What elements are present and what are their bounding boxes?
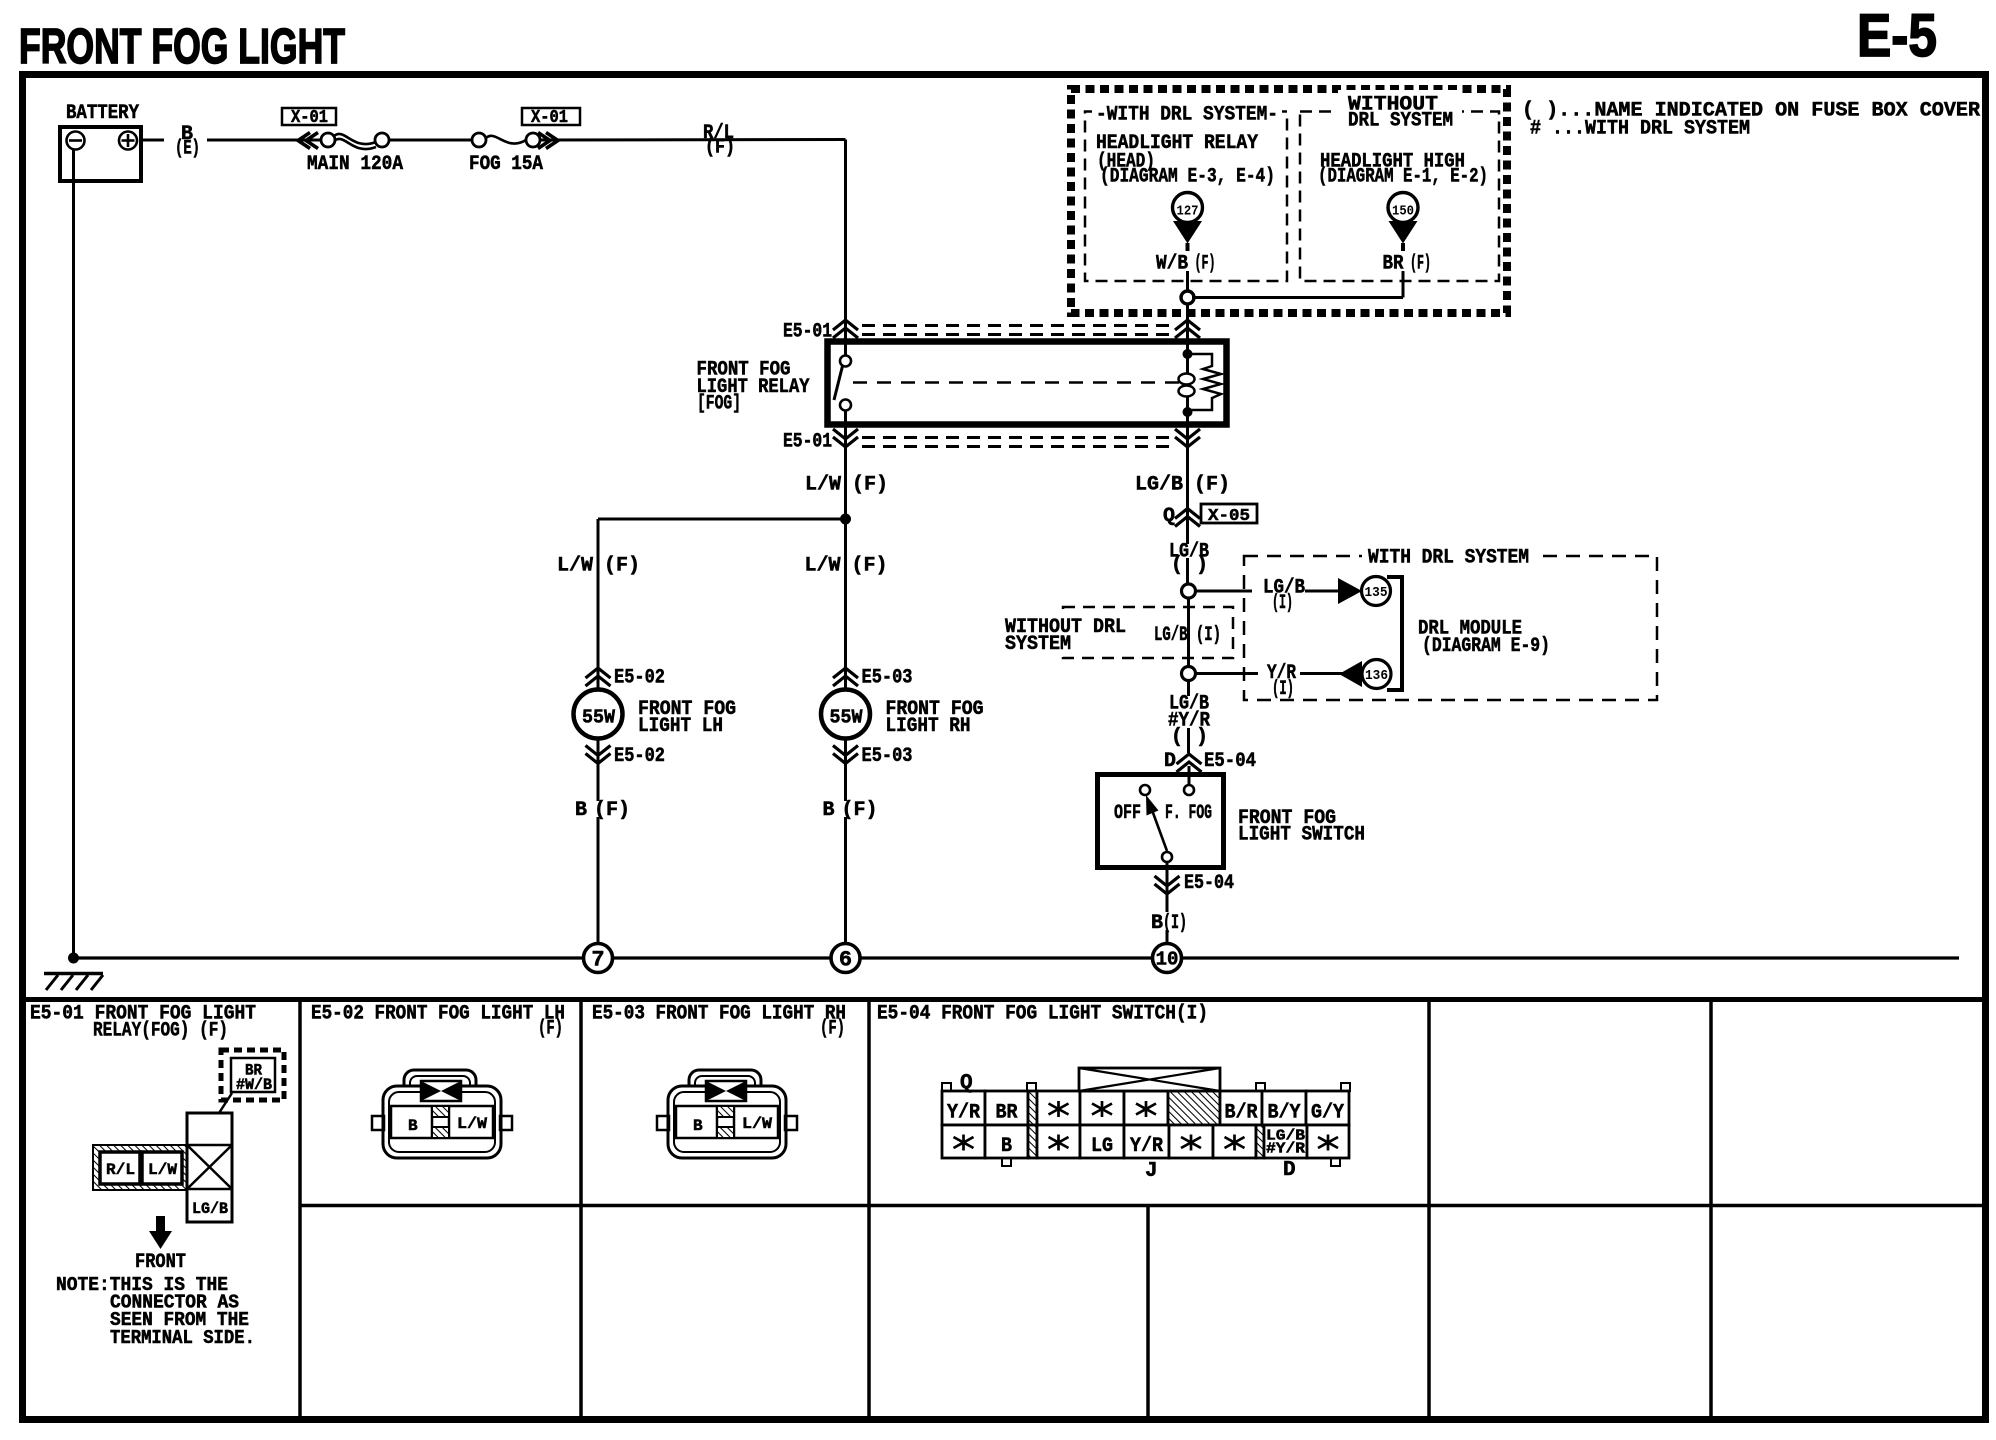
svg-text:B/Y: B/Y xyxy=(1268,1102,1301,1125)
svg-text:J: J xyxy=(1145,1160,1158,1183)
svg-text:#W/B: #W/B xyxy=(236,1076,272,1094)
svg-text:B/R: B/R xyxy=(1225,1102,1258,1125)
svg-text:LIGHT SWITCH: LIGHT SWITCH xyxy=(1238,824,1365,847)
svg-text:E5-03: E5-03 xyxy=(862,667,913,690)
svg-text:SYSTEM: SYSTEM xyxy=(1005,633,1071,656)
svg-text:Y/R: Y/R xyxy=(1130,1135,1163,1158)
svg-text:E5-02: E5-02 xyxy=(614,667,665,690)
svg-text:WITH DRL SYSTEM: WITH DRL SYSTEM xyxy=(1368,547,1529,570)
svg-text:127: 127 xyxy=(1177,204,1199,220)
svg-text:LG: LG xyxy=(1091,1135,1113,1158)
svg-text:D: D xyxy=(1283,1159,1296,1182)
svg-text:W/B: W/B xyxy=(1156,253,1188,276)
svg-text:7: 7 xyxy=(591,948,604,973)
svg-text:136: 136 xyxy=(1365,668,1388,684)
svg-text:E5-04: E5-04 xyxy=(1184,872,1234,895)
svg-text:LIGHT RH: LIGHT RH xyxy=(886,715,971,738)
svg-text:): ) xyxy=(1196,554,1208,577)
svg-text:(F): (F) xyxy=(852,555,888,578)
svg-text:F. FOG: F. FOG xyxy=(1165,802,1212,825)
svg-text:(F): (F) xyxy=(594,799,630,822)
svg-text:FRONT FOG LIGHT: FRONT FOG LIGHT xyxy=(19,20,345,74)
svg-text:B: B xyxy=(408,1117,418,1135)
svg-text:(F): (F) xyxy=(705,137,735,160)
svg-text:Y/R: Y/R xyxy=(947,1102,980,1125)
svg-text:L/W: L/W xyxy=(457,1115,487,1133)
svg-text:FRONT: FRONT xyxy=(135,1251,186,1274)
svg-text:D: D xyxy=(1164,750,1176,773)
svg-text:RELAY(FOG) (F): RELAY(FOG) (F) xyxy=(93,1020,228,1043)
svg-text:-WITH DRL SYSTEM-: -WITH DRL SYSTEM- xyxy=(1096,104,1278,127)
svg-text:X-01: X-01 xyxy=(291,108,328,128)
svg-text:E5-03 FRONT FOG LIGHT RH: E5-03 FRONT FOG LIGHT RH xyxy=(592,1003,846,1026)
svg-text:X-01: X-01 xyxy=(531,108,568,128)
svg-text:(DIAGRAM E-1, E-2): (DIAGRAM E-1, E-2) xyxy=(1318,166,1488,189)
svg-text:X-05: X-05 xyxy=(1208,507,1250,526)
svg-text:(E): (E) xyxy=(175,138,200,161)
svg-text:MAIN 120A: MAIN 120A xyxy=(307,153,403,176)
svg-text:[FOG]: [FOG] xyxy=(697,393,741,416)
svg-text:B: B xyxy=(1151,912,1163,935)
svg-text:(I): (I) xyxy=(1272,678,1294,701)
svg-text:(F): (F) xyxy=(852,474,888,497)
svg-text:E5-02 FRONT FOG LIGHT LH: E5-02 FRONT FOG LIGHT LH xyxy=(311,1003,565,1026)
svg-text:G/Y: G/Y xyxy=(1311,1102,1344,1125)
svg-text:Q: Q xyxy=(1163,505,1175,528)
svg-text:L/W: L/W xyxy=(804,555,840,578)
svg-text:LG/B: LG/B xyxy=(192,1200,228,1218)
svg-text:(: ( xyxy=(1171,726,1183,749)
svg-text:R/L: R/L xyxy=(106,1161,135,1179)
svg-text:LIGHT LH: LIGHT LH xyxy=(638,715,723,738)
svg-text:(F): (F) xyxy=(1410,253,1431,276)
svg-text:BATTERY: BATTERY xyxy=(66,102,139,125)
svg-text:E5-03: E5-03 xyxy=(862,745,913,768)
svg-text:(F): (F) xyxy=(538,1018,563,1041)
svg-text:(F): (F) xyxy=(1195,253,1216,276)
svg-text:#Y/R: #Y/R xyxy=(1266,1141,1305,1158)
svg-text:LG/B: LG/B xyxy=(1135,474,1183,497)
svg-text:E5-04 FRONT FOG LIGHT SWITCH(I: E5-04 FRONT FOG LIGHT SWITCH(I) xyxy=(877,1003,1208,1026)
svg-text:L/W: L/W xyxy=(557,555,593,578)
svg-text:Q: Q xyxy=(960,1072,973,1095)
svg-text:135: 135 xyxy=(1365,585,1388,601)
svg-text:(DIAGRAM E-9): (DIAGRAM E-9) xyxy=(1422,635,1550,658)
svg-text:(F): (F) xyxy=(604,555,640,578)
svg-text:BR: BR xyxy=(996,1102,1018,1125)
svg-text:# ...WITH DRL SYSTEM: # ...WITH DRL SYSTEM xyxy=(1530,118,1750,141)
svg-text:(I): (I) xyxy=(1272,592,1293,615)
svg-text:FOG 15A: FOG 15A xyxy=(469,153,543,176)
svg-text:BR: BR xyxy=(1383,253,1404,276)
svg-text:150: 150 xyxy=(1392,204,1414,220)
svg-text:(F): (F) xyxy=(842,799,878,822)
svg-text:(: ( xyxy=(1171,554,1183,577)
svg-text:DRL SYSTEM: DRL SYSTEM xyxy=(1348,110,1453,133)
svg-text:55W: 55W xyxy=(582,707,616,729)
svg-text:(F): (F) xyxy=(820,1018,845,1041)
svg-text:55W: 55W xyxy=(830,707,864,729)
svg-text:(F): (F) xyxy=(1194,474,1230,497)
svg-text:L/W: L/W xyxy=(148,1161,177,1179)
svg-text:10: 10 xyxy=(1156,949,1179,971)
svg-text:): ) xyxy=(1196,726,1208,749)
svg-text:E5-04: E5-04 xyxy=(1204,750,1256,773)
svg-text:E5-02: E5-02 xyxy=(614,745,665,768)
svg-text:E-5: E-5 xyxy=(1857,2,1937,69)
svg-text:E5-01: E5-01 xyxy=(783,431,832,454)
svg-text:B: B xyxy=(575,799,587,822)
svg-text:OFF: OFF xyxy=(1114,802,1141,825)
svg-text:B: B xyxy=(1001,1135,1012,1158)
svg-text:TERMINAL SIDE.: TERMINAL SIDE. xyxy=(110,1327,255,1349)
svg-text:L/W: L/W xyxy=(805,474,841,497)
svg-text:(DIAGRAM E-3, E-4): (DIAGRAM E-3, E-4) xyxy=(1100,166,1275,189)
svg-text:B: B xyxy=(822,799,834,822)
svg-text:6: 6 xyxy=(839,948,852,973)
